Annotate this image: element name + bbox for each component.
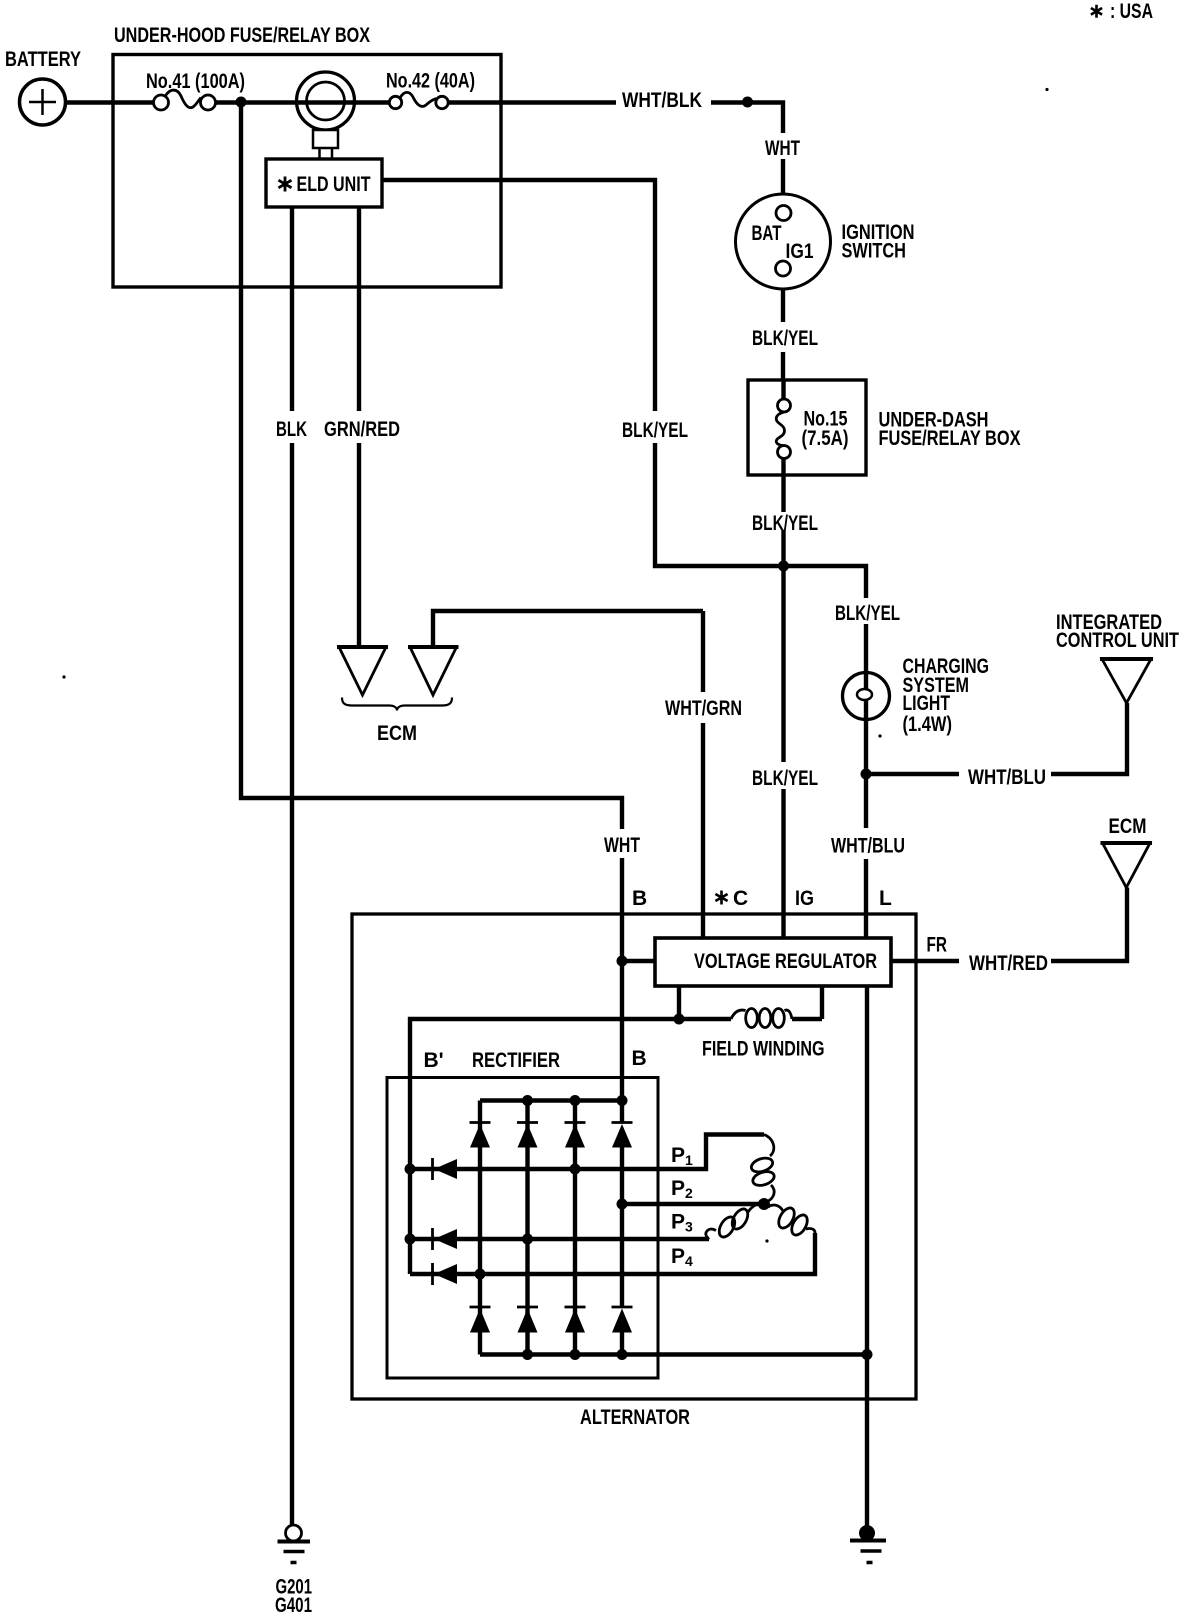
svg-text:IG: IG [795,887,814,910]
svg-text:GRN/RED: GRN/RED [324,418,400,441]
svg-text:BAT: BAT [752,222,782,245]
svg-text:C: C [733,887,748,910]
svg-text:ELD UNIT: ELD UNIT [297,173,371,196]
svg-text:B: B [632,1047,647,1070]
svg-text:WHT/BLK: WHT/BLK [622,89,702,112]
svg-text:UNDER-HOOD FUSE/RELAY BOX: UNDER-HOOD FUSE/RELAY BOX [114,24,370,47]
svg-text:B: B [632,887,647,910]
svg-text:LIGHT: LIGHT [903,692,951,715]
svg-text:RECTIFIER: RECTIFIER [472,1049,560,1072]
svg-text:CONTROL UNIT: CONTROL UNIT [1056,629,1179,652]
svg-text:No.42 (40A): No.42 (40A) [386,70,475,93]
svg-text:BLK: BLK [276,418,307,441]
svg-text:BATTERY: BATTERY [5,48,81,71]
svg-text:No.41 (100A): No.41 (100A) [146,70,245,93]
svg-text:(7.5A): (7.5A) [802,427,849,450]
svg-text:BLK/YEL: BLK/YEL [622,419,688,442]
svg-text:: USA: : USA [1110,0,1153,23]
svg-text:ECM: ECM [1109,815,1147,838]
svg-text:WHT/BLU: WHT/BLU [831,835,905,858]
svg-text:WHT: WHT [604,834,640,857]
svg-text:IG1: IG1 [786,240,814,263]
svg-text:WHT/RED: WHT/RED [969,952,1048,975]
svg-text:FIELD WINDING: FIELD WINDING [702,1038,825,1061]
svg-text:L: L [879,887,892,910]
svg-text:SWITCH: SWITCH [842,240,907,263]
svg-text:WHT/BLU: WHT/BLU [968,766,1046,789]
svg-text:ECM: ECM [377,722,417,745]
svg-text:B': B' [424,1049,444,1072]
svg-text:G401: G401 [275,1594,312,1617]
svg-text:FR: FR [927,934,948,957]
svg-text:VOLTAGE REGULATOR: VOLTAGE REGULATOR [694,950,877,973]
svg-text:BLK/YEL: BLK/YEL [752,512,818,535]
svg-text:ALTERNATOR: ALTERNATOR [580,1406,690,1429]
svg-text:FUSE/RELAY BOX: FUSE/RELAY BOX [879,427,1021,450]
svg-text:BLK/YEL: BLK/YEL [835,602,900,625]
svg-text:WHT/GRN: WHT/GRN [665,697,742,720]
svg-text:BLK/YEL: BLK/YEL [752,327,818,350]
svg-text:(1.4W): (1.4W) [903,713,953,736]
svg-text:BLK/YEL: BLK/YEL [752,767,818,790]
svg-text:WHT: WHT [765,137,800,160]
